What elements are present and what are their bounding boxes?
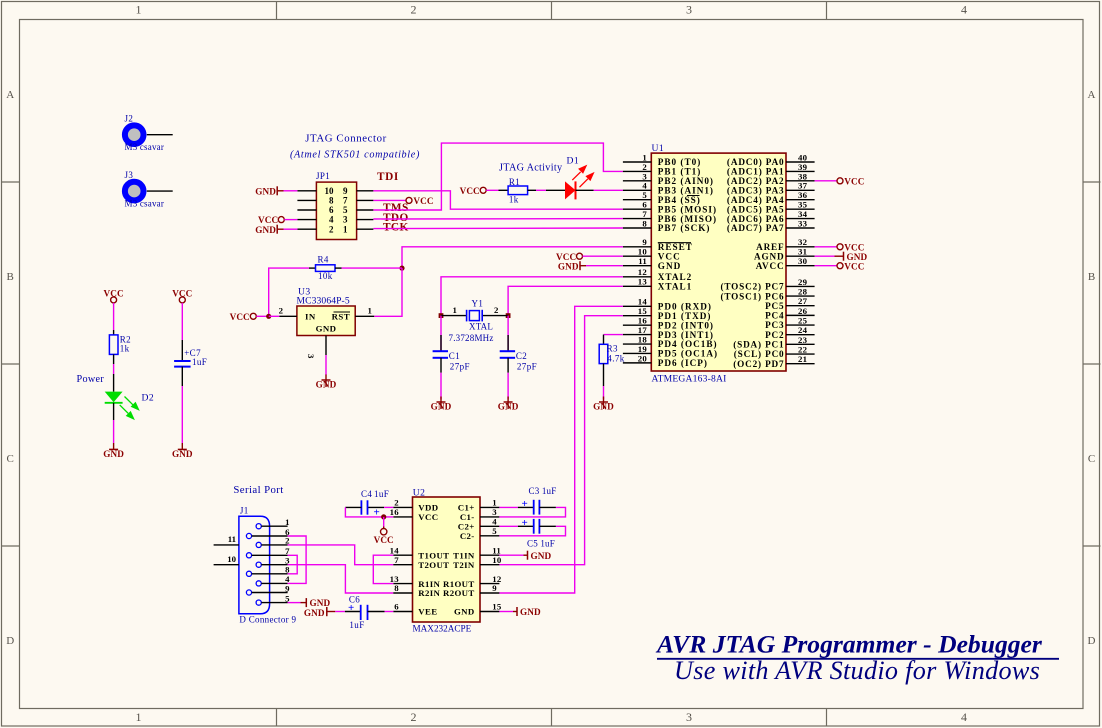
svg-text:VCC: VCC [844, 261, 864, 271]
svg-text:1uF: 1uF [374, 489, 389, 499]
wire U1 pin12 XTAL2 to crystal [441, 277, 623, 316]
wire U1 pin10 VCC [583, 255, 623, 257]
IC U2 MAX232ACPE [413, 487, 481, 633]
U2 pin 5 C2- [460, 526, 500, 541]
wire J3 pin1 [147, 190, 173, 192]
U2 pin 8 R2IN [393, 583, 440, 598]
crystal Y1 [441, 299, 508, 343]
svg-text:U1: U1 [652, 143, 665, 154]
wire C5 to U2 pin5 [499, 526, 565, 536]
U2 pin 12 R1OUT [443, 574, 502, 589]
power port GND below D2 [103, 443, 124, 459]
wire C4 left down to VCC pin16 run [345, 507, 393, 517]
svg-text:10k: 10k [318, 271, 333, 281]
wire GND to C6 [335, 611, 345, 613]
IC U3 MC33064P-5 [297, 287, 356, 336]
JP1 pin 4 stub [297, 219, 316, 221]
U1 pin 24 PC2 [765, 325, 815, 340]
svg-text:24: 24 [798, 325, 808, 335]
svg-text:1uF: 1uF [349, 620, 364, 630]
svg-text:GND: GND [498, 402, 519, 412]
svg-text:10: 10 [638, 247, 648, 257]
label JTAG Connector heading [305, 133, 387, 145]
wire R4 right to junction [342, 267, 403, 269]
svg-text:GND: GND [255, 186, 276, 196]
connector J1 D-sub 9 [239, 506, 297, 625]
svg-text:GND: GND [255, 225, 276, 235]
U3 pin 3 stub [306, 336, 326, 360]
power port VCC at JP1 pin7 [406, 196, 434, 206]
power port GND below C7 [172, 443, 193, 459]
svg-text:J3: J3 [125, 170, 134, 180]
svg-text:D2: D2 [142, 392, 155, 403]
wire J2 pin1 [147, 134, 173, 136]
svg-text:VCC: VCC [258, 215, 278, 225]
power port GND at J1 pin5 [301, 598, 331, 608]
svg-text:10: 10 [492, 555, 502, 565]
wire TDO net (JP1 pin3 to U1 pin7 PB6) [373, 218, 623, 220]
svg-text:PC4: PC4 [765, 311, 784, 321]
U1 pin 11 GND [623, 256, 681, 271]
U1 pin 37 (ADC3) PA3 [727, 181, 815, 196]
U1 pin 8 PB7 (SCK) [623, 218, 711, 233]
U2 pin 15 GND [454, 602, 502, 617]
wire D1 to U1 pin4 PB3 [576, 189, 623, 191]
capacitor C7 [174, 348, 207, 367]
svg-text:1: 1 [136, 3, 142, 17]
JP1 pin 9 stub [357, 190, 374, 192]
svg-text:TCK: TCK [383, 221, 409, 233]
svg-text:10: 10 [227, 554, 236, 564]
svg-text:RST: RST [332, 312, 350, 322]
capacitor C4 [345, 489, 393, 519]
wire R4 left down to VCC junction [269, 268, 309, 316]
junction at U3 pin2 net [266, 314, 271, 319]
U1 pin 12 XTAL2 [623, 267, 692, 282]
svg-text:27: 27 [798, 296, 808, 306]
svg-text:XTAL1: XTAL1 [658, 282, 692, 292]
power port VCC at R1 [460, 186, 487, 196]
U2 pin 14 T1OUT [390, 545, 450, 560]
svg-text:C2-: C2- [460, 531, 475, 541]
power port VCC at JP1 pin4 [258, 215, 284, 225]
power port VCC at U1 pin10 [556, 252, 583, 262]
svg-text:VCC: VCC [230, 312, 250, 322]
wire JP1 pin10 GND [284, 190, 298, 192]
J1 pin 7 [246, 546, 290, 558]
svg-text:PB7 (SCK): PB7 (SCK) [658, 223, 711, 233]
LED D1 [546, 156, 595, 200]
svg-text:4: 4 [961, 3, 967, 17]
svg-text:11: 11 [492, 545, 501, 555]
svg-text:PC3: PC3 [765, 320, 784, 330]
power port VCC at U3 pin2 [230, 312, 257, 322]
J1 pin 11 stub [214, 534, 239, 545]
power port GND at U1 pin31 [835, 252, 868, 262]
svg-text:J1: J1 [240, 506, 249, 516]
svg-text:30: 30 [798, 256, 808, 266]
svg-text:A: A [1088, 89, 1096, 101]
svg-text:4.7k: 4.7k [607, 353, 624, 363]
wire TCK net (JP1 pin1 to U1 pin8 PB7) [373, 227, 623, 230]
svg-text:XTAL: XTAL [469, 322, 493, 332]
svg-text:9: 9 [285, 583, 290, 593]
power port VCC at R2 [103, 288, 123, 303]
svg-text:6: 6 [329, 205, 334, 215]
capacitor C3 [518, 486, 557, 515]
svg-text:R2IN: R2IN [418, 588, 440, 598]
label Atmel STK501 compatible [290, 150, 420, 161]
wire JP1 pin2 GND [284, 228, 298, 230]
svg-text:GND: GND [310, 598, 331, 608]
J1 pin 6 [246, 527, 290, 539]
wire R1 to D1 [536, 189, 546, 191]
U1 pin 3 PB2 (AIN0) [623, 171, 714, 186]
svg-text:GND: GND [172, 449, 193, 459]
U3 pin 2 stub [279, 305, 297, 316]
svg-text:2: 2 [329, 224, 334, 234]
svg-text:VCC: VCC [418, 512, 438, 522]
wire U1 pin30 to VCC [815, 265, 837, 267]
svg-text:VCC: VCC [374, 535, 394, 545]
power port GND at JP1 pin2 [255, 225, 283, 235]
U2 pin 11 T1IN [453, 545, 501, 560]
J1 pin 5 [256, 593, 290, 605]
wire U2 pin4 to C5 [499, 525, 518, 527]
svg-text:1: 1 [343, 224, 348, 234]
svg-text:7: 7 [343, 196, 348, 206]
svg-text:Serial Port: Serial Port [233, 484, 283, 496]
svg-text:4: 4 [492, 517, 497, 527]
svg-text:3: 3 [306, 354, 316, 359]
wire D2 to GND [113, 403, 115, 443]
svg-text:C4: C4 [361, 489, 372, 499]
U1 pin 1 PB0 (T0) [623, 152, 701, 167]
svg-text:MAX232ACPE: MAX232ACPE [413, 624, 472, 634]
svg-text:2: 2 [279, 305, 284, 315]
svg-text:12: 12 [638, 267, 648, 277]
svg-text:B: B [1088, 271, 1095, 283]
wire U1 pin13 XTAL1 to crystal [508, 286, 623, 315]
resistor R4 [309, 255, 342, 282]
svg-text:2: 2 [411, 710, 417, 724]
U1 pin 35 (ADC5) PA5 [727, 200, 815, 215]
wire C2 to GND [507, 373, 509, 400]
svg-text:JTAG Connector: JTAG Connector [305, 133, 387, 145]
svg-text:AGND: AGND [754, 251, 784, 261]
U1 pin 6 PB5 (MOSI) [623, 200, 717, 215]
svg-text:29: 29 [798, 277, 808, 287]
U1 pin 13 XTAL1 [623, 277, 692, 292]
svg-text:R3: R3 [607, 343, 618, 353]
svg-text:10: 10 [325, 186, 335, 196]
svg-text:23: 23 [798, 335, 808, 345]
U1 pin 40 (ADC0) PA0 [727, 152, 815, 167]
mounting hole J2 [125, 114, 165, 153]
svg-text:T2IN: T2IN [453, 560, 475, 570]
svg-text:GND: GND [304, 608, 325, 618]
U1 pin 39 (ADC1) PA1 [727, 162, 815, 177]
svg-text:1: 1 [368, 305, 372, 315]
wire U2 pin15 to GND [499, 611, 513, 613]
svg-text:JTAG Activity: JTAG Activity [499, 163, 563, 174]
wire J1 pin5 to GND [288, 602, 301, 604]
svg-text:26: 26 [798, 306, 808, 316]
wire VCC to junction [256, 315, 268, 317]
svg-text:C: C [7, 453, 14, 465]
svg-text:1: 1 [492, 498, 497, 508]
U1 pin 10 VCC [623, 247, 681, 262]
power port GND below C1 [431, 397, 452, 412]
wire C6 to U2 pin6 VEE [385, 611, 394, 613]
svg-text:U2: U2 [413, 487, 426, 498]
U1 pin 15 PD1 (TXD) [623, 306, 712, 321]
svg-text:VDD: VDD [418, 503, 438, 513]
svg-text:22: 22 [798, 344, 808, 354]
J1 pin 8 [246, 565, 290, 577]
wire C7 to GND [181, 367, 183, 443]
connector JP1 [316, 171, 357, 240]
svg-text:28: 28 [798, 286, 808, 296]
power port GND at U1 pin11 [558, 261, 586, 271]
svg-text:ATMEGA163-8AI: ATMEGA163-8AI [652, 374, 727, 385]
svg-text:9: 9 [343, 186, 348, 196]
svg-text:8: 8 [394, 583, 399, 593]
JP1 pin 8 stub [297, 199, 316, 201]
U1 pin 38 (ADC2) PA2 [727, 171, 815, 186]
svg-text:R4: R4 [318, 255, 329, 265]
U1 pin 25 PC3 [765, 315, 815, 330]
wire C3 to U2 pin3 [499, 507, 565, 517]
power port GND at U2 pin15 [513, 607, 541, 617]
U2 pin 13 R1IN [390, 574, 441, 589]
U1 pin 33 (ADC7) PA7 [727, 218, 815, 233]
svg-text:1uF: 1uF [192, 357, 207, 367]
svg-text:VCC: VCC [413, 196, 433, 206]
svg-text:1k: 1k [509, 195, 519, 205]
svg-text:C6: C6 [349, 595, 360, 605]
svg-text:13: 13 [638, 277, 648, 287]
svg-text:+: + [522, 517, 528, 529]
svg-text:31: 31 [798, 247, 807, 257]
power port GND at C6 [304, 607, 335, 618]
svg-text:Power: Power [77, 374, 105, 385]
power port GND at JP1 pin10 [255, 186, 283, 196]
svg-text:VCC: VCC [460, 186, 480, 196]
power port GND below R3 [593, 397, 614, 412]
U1 pin 17 PD3 (INT1) [623, 325, 714, 340]
wire U2 pin14 to pin13 loop [373, 555, 393, 583]
svg-text:GND: GND [658, 261, 681, 271]
svg-text:GND: GND [558, 261, 579, 271]
U1 pin 21 (OC2) PD7 [733, 354, 814, 369]
svg-text:15: 15 [492, 602, 502, 612]
U1 pin 19 PD5 (OC1A) [623, 344, 718, 359]
wire U1 pin17 to R3 [604, 334, 623, 336]
U1 pin 30 AVCC [756, 256, 815, 271]
svg-text:C2+: C2+ [458, 522, 475, 532]
wire J1 pin7 to pin8 loop [288, 555, 298, 574]
U1 pin 31 AGND [754, 247, 815, 262]
svg-text:JP1: JP1 [316, 171, 330, 181]
svg-text:GND: GND [431, 402, 452, 412]
U2 pin 1 C1+ [458, 498, 500, 513]
U1 pin 18 PD4 (OC1B) [623, 334, 718, 349]
svg-text:GND: GND [520, 607, 541, 617]
wire JP1 pin4 VCC [284, 219, 297, 221]
U2 pin 6 VEE [393, 602, 437, 617]
title AVR JTAG Programmer - Debugger [655, 630, 1059, 659]
junction at Y1 pin2 [506, 313, 511, 318]
svg-text:21: 21 [798, 354, 807, 364]
svg-text:6: 6 [394, 602, 399, 612]
svg-text:GND: GND [847, 252, 868, 262]
wire VCC to C7 [181, 303, 183, 361]
svg-text:+: + [522, 498, 528, 510]
J1 pin 1 [256, 517, 289, 529]
svg-text:Y1: Y1 [472, 299, 484, 309]
svg-text:R1: R1 [509, 177, 520, 187]
svg-text:GND: GND [103, 449, 124, 459]
U1 pin 5 PB4 (SS) [623, 190, 701, 205]
svg-text:27pF: 27pF [517, 361, 537, 371]
wire J1 pin3 to U2 R2IN [288, 565, 394, 593]
svg-text:4: 4 [961, 710, 967, 724]
U2 pin 7 T2OUT [393, 555, 449, 570]
svg-text:8: 8 [329, 196, 334, 206]
U1 pin 4 PB3 (AIN1) [623, 181, 714, 196]
power port GND at U2 pin11 [524, 551, 552, 561]
U2 pin 2 VDD [393, 498, 438, 513]
svg-text:C1+: C1+ [458, 503, 475, 513]
wire junction to U3 pin2 [269, 315, 280, 317]
svg-text:3: 3 [686, 3, 692, 17]
U1 pin 32 AREF [756, 237, 815, 252]
svg-text:PD6 (ICP): PD6 (ICP) [658, 358, 708, 368]
capacitor C6 [345, 595, 385, 631]
svg-text:VCC: VCC [556, 252, 576, 262]
wire U2 pin1 to C3 [499, 506, 518, 508]
svg-text:R2OUT: R2OUT [443, 588, 475, 598]
wire U1 pin15 PD1 to U2 T2IN [499, 316, 623, 565]
svg-text:(TOSC1) PC6: (TOSC1) PC6 [720, 291, 784, 301]
U2 pin 16 VCC [390, 507, 439, 522]
junction at Y1 pin1 [439, 313, 444, 318]
svg-text:(SCL) PC0: (SCL) PC0 [734, 349, 785, 359]
subtitle Use with AVR Studio for Windows [674, 656, 1040, 685]
JP1 pin 5 stub [357, 209, 374, 211]
svg-text:C5 1uF: C5 1uF [527, 539, 555, 549]
J1 pin 2 [256, 536, 290, 548]
J1 pin 9 [246, 583, 290, 595]
U1 pin 36 (ADC4) PA4 [727, 190, 815, 205]
svg-text:5: 5 [492, 526, 497, 536]
svg-text:VCC: VCC [844, 176, 864, 186]
svg-text:7.3728MHz: 7.3728MHz [449, 333, 494, 343]
wire U1 pin31 to GND [815, 255, 835, 257]
svg-text:GND: GND [593, 402, 614, 412]
JP1 pin 10 stub [297, 190, 316, 192]
wire junction to VCC [383, 517, 385, 527]
svg-text:T2OUT: T2OUT [418, 560, 449, 570]
svg-text:D: D [1088, 635, 1096, 647]
svg-text:(TOSC2) PC7: (TOSC2) PC7 [720, 282, 784, 292]
svg-text:3: 3 [686, 710, 692, 724]
junction at VCC feed [381, 514, 386, 519]
svg-text:GND: GND [531, 551, 552, 561]
svg-text:TDI: TDI [377, 171, 399, 183]
svg-text:11: 11 [638, 256, 647, 266]
svg-text:D: D [6, 635, 14, 647]
svg-text:4: 4 [329, 215, 334, 225]
power port VCC at C7 [172, 288, 192, 303]
junction at R4 right [399, 266, 404, 271]
U1 pin 9 RESET [623, 237, 693, 252]
svg-text:GND: GND [454, 607, 475, 617]
power port VCC at U2 pin16 [374, 527, 394, 546]
U3 pin 1 stub [355, 305, 374, 316]
svg-text:IN: IN [305, 312, 316, 322]
power port VCC at U1 pin38 [837, 176, 865, 186]
JP1 pin 3 stub [357, 219, 374, 221]
capacitor C2 [500, 316, 537, 373]
capacitor C1 [433, 316, 470, 373]
svg-text:M3 csavar: M3 csavar [125, 198, 165, 208]
svg-text:AVR JTAG Programmer - Debugger: AVR JTAG Programmer - Debugger [655, 630, 1043, 659]
svg-text:27pF: 27pF [450, 361, 470, 371]
svg-text:14: 14 [390, 545, 400, 555]
power port VCC at U1 pin32 [837, 242, 865, 252]
resistor R2 [109, 330, 131, 364]
svg-text:XTAL2: XTAL2 [658, 272, 692, 282]
mounting hole J3 [125, 170, 165, 209]
svg-text:MC33064P-5: MC33064P-5 [297, 295, 350, 306]
wire J1 pin6 to pin4 loop [288, 536, 307, 583]
U1 pin 28 (TOSC1) PC6 [720, 286, 814, 301]
svg-text:16: 16 [390, 507, 400, 517]
svg-text:Use with AVR Studio for Window: Use with AVR Studio for Windows [674, 656, 1040, 685]
svg-text:2: 2 [394, 498, 399, 508]
svg-text:9: 9 [492, 583, 497, 593]
wire R3 to GND [603, 386, 605, 399]
svg-text:PC2: PC2 [765, 330, 784, 340]
U1 pin 2 PB1 (T1) [623, 162, 701, 177]
JP1 pin 2 stub [297, 228, 316, 230]
svg-text:25: 25 [798, 315, 808, 325]
U1 pin 22 (SCL) PC0 [734, 344, 815, 359]
svg-text:11: 11 [228, 534, 236, 544]
svg-text:7: 7 [394, 555, 399, 565]
svg-text:C2: C2 [516, 351, 527, 361]
svg-text:A: A [6, 89, 14, 101]
U1 pin 29 (TOSC2) PC7 [720, 277, 814, 292]
svg-text:B: B [7, 271, 14, 283]
U1 pin 7 PB6 (MISO) [623, 209, 717, 224]
wire C1 to GND [440, 373, 442, 400]
wire U1 pin14 PD0 to U2 R2OUT [499, 306, 623, 593]
capacitor C5 [518, 517, 556, 549]
resistor R3 [599, 335, 625, 386]
svg-text:VCC: VCC [658, 251, 681, 261]
U1 pin 14 PD0 (RXD) [623, 297, 712, 312]
wire VCC to R1 [486, 189, 498, 191]
power port GND below C2 [498, 397, 519, 412]
JP1 pin 7 stub [357, 199, 374, 201]
wire R2 to D2 [113, 364, 115, 374]
JP1 pin 6 stub [297, 209, 316, 211]
U2 pin 9 R2OUT [443, 583, 499, 598]
svg-text:2: 2 [411, 3, 417, 17]
